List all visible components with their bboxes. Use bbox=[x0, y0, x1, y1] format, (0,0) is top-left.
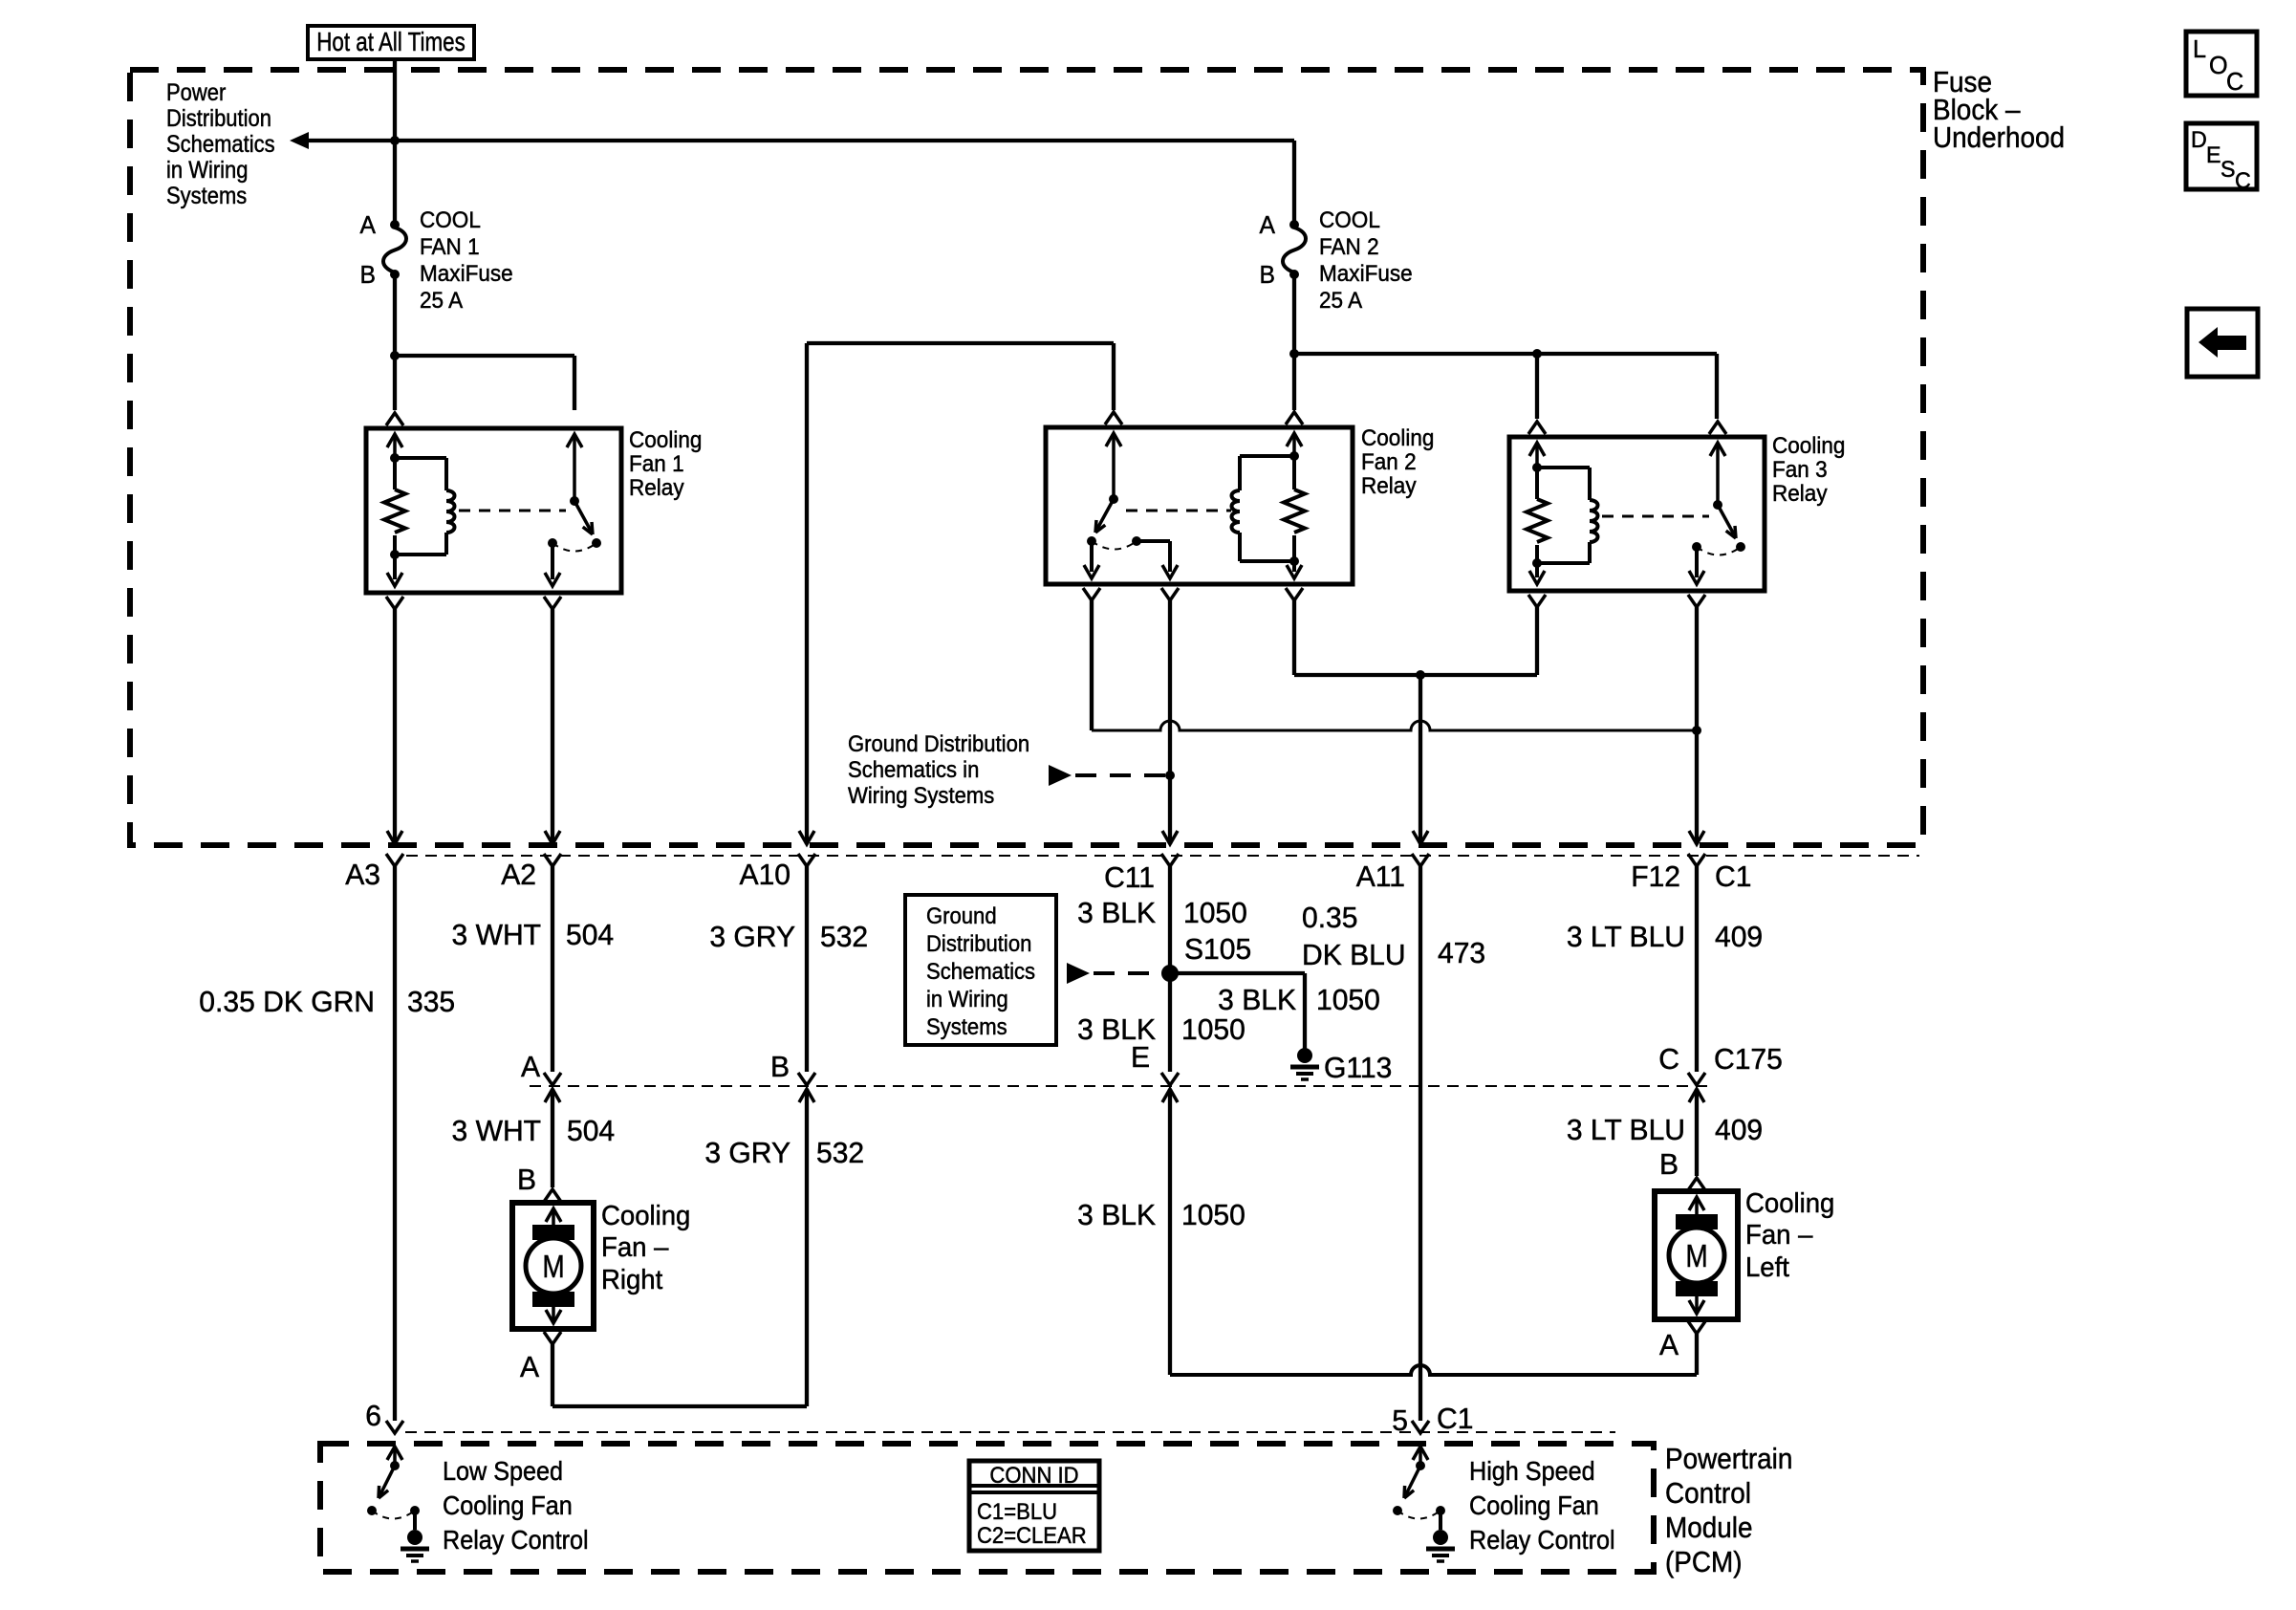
svg-text:FAN 1: FAN 1 bbox=[420, 233, 480, 259]
label: S105 bbox=[1184, 933, 1251, 967]
svg-text:C: C bbox=[1658, 1043, 1679, 1077]
svg-text:Fan 3: Fan 3 bbox=[1772, 456, 1828, 482]
svg-text:COOL: COOL bbox=[420, 207, 481, 232]
svg-text:Relay: Relay bbox=[1361, 472, 1417, 498]
motor enclosure bbox=[512, 1203, 594, 1329]
wire: fan left return bus to E riser (hop over A11) bbox=[1170, 1365, 1697, 1375]
svg-text:Powertrain: Powertrain bbox=[1665, 1443, 1792, 1476]
svg-text:C175: C175 bbox=[1714, 1043, 1783, 1077]
svg-text:G113: G113 bbox=[1324, 1052, 1392, 1085]
svg-text:0.35: 0.35 bbox=[1302, 902, 1357, 935]
svg-text:3 GRY: 3 GRY bbox=[709, 921, 795, 954]
label: fuse 2 terminal B bbox=[1260, 261, 1275, 289]
svg-text:Distribution: Distribution bbox=[926, 930, 1031, 956]
svg-text:3 WHT: 3 WHT bbox=[452, 1115, 541, 1148]
dashed actuation link relay 3 bbox=[1602, 515, 1709, 518]
svg-text:Schematics in: Schematics in bbox=[848, 756, 979, 782]
svg-text:(PCM): (PCM) bbox=[1665, 1546, 1743, 1579]
label: Cooling Fan 2 Relay bbox=[1361, 424, 1434, 450]
node: branch to relay 3 coil pin bbox=[1532, 349, 1542, 359]
node: relay 2 thrown contact bbox=[1132, 536, 1141, 546]
wire: branch down to relay 3 switch pin bbox=[1715, 354, 1719, 419]
DESC reference box bbox=[2186, 123, 2257, 189]
svg-text:Control: Control bbox=[1665, 1477, 1751, 1511]
svg-text:Cooling: Cooling bbox=[601, 1199, 690, 1230]
svg-text:Fan 2: Fan 2 bbox=[1361, 448, 1417, 474]
wire: A10 down to C175 pin B (3 GRY 532) bbox=[805, 866, 809, 1072]
pin label A2 bbox=[501, 859, 536, 892]
wire: C175 C down to cooling fan left pin B bbox=[1695, 1089, 1699, 1176]
svg-text:E: E bbox=[2206, 143, 2221, 168]
wire: hot feed down from Hot at All Times bbox=[393, 59, 397, 141]
svg-text:C11: C11 bbox=[1104, 861, 1155, 895]
label: Cooling Fan 1 Relay bbox=[629, 426, 702, 452]
node: dashed ground reference junction bbox=[1165, 771, 1175, 780]
wire: relay 3 coil output down bbox=[1535, 607, 1539, 675]
svg-text:Distribution: Distribution bbox=[166, 105, 271, 132]
ground G113 bbox=[1297, 1048, 1312, 1063]
motor feed arrow bbox=[546, 1208, 561, 1222]
svg-text:CONN ID: CONN ID bbox=[989, 1462, 1078, 1488]
pin label C11 bbox=[1104, 861, 1155, 895]
node: driver ground contact bbox=[410, 1506, 420, 1515]
label: pin A fan left bbox=[1659, 1329, 1679, 1362]
wire: relay 3 common output down bbox=[1695, 547, 1699, 577]
svg-text:C1=BLU: C1=BLU bbox=[977, 1498, 1057, 1524]
svg-text:5: 5 bbox=[1392, 1404, 1408, 1438]
svg-text:1050: 1050 bbox=[1183, 897, 1247, 930]
wire: contact to ground bbox=[1439, 1511, 1442, 1530]
driver switch arm bbox=[380, 1466, 395, 1494]
node: coil control junction to A11 bbox=[1416, 670, 1425, 680]
PCM dashed enclosure bbox=[320, 1444, 1654, 1572]
label: 3 LT BLU 409 lower bbox=[1567, 1114, 1685, 1147]
svg-text:Ground: Ground bbox=[926, 903, 997, 928]
motor feed arrow bbox=[1689, 1197, 1704, 1210]
svg-text:DK BLU: DK BLU bbox=[1302, 939, 1406, 972]
svg-text:409: 409 bbox=[1715, 1114, 1763, 1147]
wire: coil control bus relay2-relay3 bbox=[1294, 673, 1537, 677]
node: relay 1 resistor/coil bottom bbox=[390, 550, 400, 559]
wire: relay 2 coil output down bbox=[1292, 600, 1296, 675]
PCM terminal pin 5 chevron bbox=[1412, 1421, 1429, 1433]
svg-text:Left: Left bbox=[1745, 1251, 1789, 1282]
svg-text:C: C bbox=[2235, 169, 2251, 194]
svg-text:Underhood: Underhood bbox=[1933, 121, 2065, 155]
wire: relay 1 coil pin to connector A3 bbox=[393, 609, 397, 844]
connector terminal at x=1224 (arrow + chevron) bbox=[1162, 831, 1178, 844]
wire: C175 A down to cooling fan right pin B bbox=[551, 1089, 554, 1187]
CONN ID table bbox=[969, 1461, 1099, 1551]
relay 3 switch pin arrow into box bbox=[1710, 443, 1725, 456]
label: G113 bbox=[1324, 1052, 1392, 1085]
label: fuse 1 terminal A bbox=[360, 211, 377, 239]
wire: A3 to PCM pin 6 (0.35 DK GRN 335) bbox=[393, 866, 397, 1421]
relay 3 bottom terminal chevrons bbox=[1528, 595, 1546, 607]
svg-text:A11: A11 bbox=[1356, 860, 1405, 894]
node: hot feed junction bbox=[390, 136, 400, 145]
motor output arrow bbox=[1695, 1296, 1699, 1313]
svg-text:Fan –: Fan – bbox=[1745, 1218, 1813, 1250]
wire: relay 2 thrown output to connector C11 bbox=[1168, 600, 1172, 844]
label: 3 LT BLU 409 upper bbox=[1567, 921, 1685, 954]
relay 2 bottom terminal chevrons bbox=[1083, 588, 1100, 600]
dashed throw arc relay 1 bbox=[552, 543, 596, 552]
pin label A10 bbox=[740, 859, 791, 892]
label: COOL FAN 2 MaxiFuse 25 A bbox=[1319, 207, 1380, 232]
node: relay 1 common contact bbox=[548, 538, 557, 548]
coil L-k1 (relay 1 winding) bbox=[395, 456, 446, 460]
svg-text:L: L bbox=[2193, 36, 2206, 63]
svg-text:Wiring Systems: Wiring Systems bbox=[848, 782, 994, 808]
label: Fuse Block - Underhood bbox=[1933, 66, 1992, 99]
svg-text:COOL: COOL bbox=[1319, 207, 1380, 232]
label: fuse 1 terminal B bbox=[360, 261, 376, 289]
svg-text:O: O bbox=[2209, 53, 2228, 79]
svg-text:Cooling: Cooling bbox=[1745, 1186, 1834, 1218]
svg-text:B: B bbox=[770, 1051, 790, 1084]
motor brush top bbox=[1676, 1214, 1718, 1229]
connector terminal at x=1775 (arrow + chevron) bbox=[1689, 831, 1704, 844]
node: driver pivot bbox=[390, 1461, 400, 1470]
svg-text:B: B bbox=[360, 261, 376, 289]
pin label C at C175 bbox=[1658, 1043, 1679, 1077]
wire: S105 branch to G113 bbox=[1170, 971, 1305, 975]
node: tie line junction on F12 wire bbox=[1692, 726, 1701, 735]
svg-text:FAN 2: FAN 2 bbox=[1319, 233, 1379, 259]
svg-text:3 GRY: 3 GRY bbox=[704, 1137, 791, 1170]
svg-text:Relay: Relay bbox=[629, 474, 684, 500]
label: 3 BLK 1050 bottom bbox=[1077, 1199, 1156, 1232]
wire: A11 down to PCM pin 5 (0.35 DK BLU 473) bbox=[1419, 866, 1422, 1421]
connector terminal at x=844 (arrow + chevron) bbox=[799, 831, 814, 844]
wire: A11 riser down to connector bbox=[1419, 675, 1422, 844]
node: driver open contact bbox=[367, 1506, 377, 1515]
relay 1 coil-pin output arrow bbox=[393, 555, 397, 579]
fuse F1: COOL FAN 1 MaxiFuse 25 A bbox=[390, 220, 400, 229]
svg-text:504: 504 bbox=[566, 919, 614, 952]
svg-text:Schematics: Schematics bbox=[166, 131, 275, 158]
C175 terminal at x=1775 (chevron + arrow) bbox=[1688, 1073, 1705, 1085]
svg-text:B: B bbox=[517, 1164, 536, 1197]
node: driver pivot bbox=[1416, 1461, 1425, 1470]
label: pin B fan right bbox=[517, 1164, 536, 1197]
svg-text:B: B bbox=[1659, 1148, 1679, 1182]
svg-text:473: 473 bbox=[1438, 937, 1485, 970]
pin label A11 bbox=[1356, 860, 1405, 894]
svg-text:335: 335 bbox=[407, 986, 455, 1019]
svg-text:MaxiFuse: MaxiFuse bbox=[1319, 260, 1413, 286]
Hot at All Times box bbox=[308, 26, 474, 59]
svg-text:Low Speed: Low Speed bbox=[443, 1456, 563, 1487]
svg-text:3 BLK: 3 BLK bbox=[1077, 1199, 1156, 1232]
motor brush bottom bbox=[532, 1292, 574, 1307]
wire: F12 down to C175 pin C (3 LT BLU 409) bbox=[1695, 866, 1699, 1072]
relay 1 switch arm bbox=[574, 501, 591, 531]
svg-text:0.35 DK GRN: 0.35 DK GRN bbox=[199, 986, 375, 1019]
wire: relay 2 common contact output down bbox=[1090, 541, 1094, 572]
svg-text:25 A: 25 A bbox=[1319, 287, 1362, 313]
node: driver ground contact bbox=[1436, 1506, 1445, 1515]
svg-text:532: 532 bbox=[816, 1137, 864, 1170]
node: driver open contact bbox=[1393, 1506, 1402, 1515]
relay K3: Cooling Fan 3 Relay box bbox=[1509, 437, 1765, 591]
connector line: fuse block bottom (thin dashed) bbox=[406, 855, 1919, 857]
coil L-k2 (relay 2 winding) bbox=[1240, 454, 1294, 458]
wire: fan right pin A down bbox=[551, 1344, 554, 1406]
coil L-k3 (relay 3 winding) bbox=[1537, 466, 1590, 469]
node: relay 3 switch pivot bbox=[1713, 500, 1722, 510]
back-arrow box bbox=[2187, 309, 2258, 377]
svg-text:C2=CLEAR: C2=CLEAR bbox=[977, 1522, 1087, 1548]
svg-text:Hot at All Times: Hot at All Times bbox=[316, 28, 466, 57]
wire: relay 1 switch output to connector A2 bbox=[551, 609, 554, 844]
svg-text:Fan –: Fan – bbox=[601, 1230, 669, 1262]
svg-text:Right: Right bbox=[601, 1263, 662, 1295]
wire: fuse 1 output to relay 1 coil pin bbox=[393, 356, 397, 410]
connector terminal at x=1486 (arrow + chevron) bbox=[1413, 831, 1428, 844]
label: Power Distribution Schematics in Wiring Systems bbox=[166, 79, 226, 106]
node: relay 3 resistor/coil bottom bbox=[1532, 558, 1542, 568]
label: 3 BLK 1050 (G113 branch) bbox=[1218, 984, 1296, 1017]
wire: horizontal hot bus to power distribution arrow and fuse 2 bbox=[305, 139, 1294, 142]
svg-text:3 BLK: 3 BLK bbox=[1077, 897, 1156, 930]
pin label A3 bbox=[345, 859, 380, 892]
wire: C11 down to C175 pin E (3 BLK 1050) bbox=[1168, 866, 1172, 1072]
node: relay 3 resistor/coil top bbox=[1532, 463, 1542, 472]
svg-text:Cooling Fan: Cooling Fan bbox=[1469, 1490, 1599, 1521]
relay 1 coil-pin arrow into box bbox=[387, 434, 402, 447]
motor enclosure bbox=[1655, 1191, 1738, 1319]
PCM terminal pin 6 chevron bbox=[386, 1421, 403, 1433]
wire: fuse 1 output down bbox=[393, 274, 397, 356]
C175 terminal at x=578 (chevron + arrow) bbox=[544, 1073, 561, 1085]
connector line: PCM top (thin dashed) bbox=[405, 1431, 1615, 1433]
pin label C1 at PCM bbox=[1437, 1403, 1473, 1436]
motor M1: Cooling Fan - Right bbox=[544, 1189, 561, 1202]
svg-text:A10: A10 bbox=[740, 859, 791, 892]
label: Powertrain Control Module (PCM) bbox=[1665, 1443, 1792, 1476]
wire: relay 2 switch pin feed from A10 riser bbox=[807, 341, 1114, 345]
driver switch arm bbox=[1406, 1466, 1420, 1494]
ground symbol bbox=[1433, 1530, 1448, 1545]
wire: A2 down to C175 pin A (3 WHT 504) bbox=[551, 866, 554, 1072]
svg-text:Schematics: Schematics bbox=[926, 958, 1035, 984]
wire: fuse 2 output to relay 2 coil pin bbox=[1292, 354, 1296, 410]
wire: relay 3 common output to connector F12 bbox=[1695, 607, 1699, 844]
svg-text:C1: C1 bbox=[1715, 860, 1751, 894]
node: relay 2 common contact bbox=[1087, 536, 1096, 546]
motor brush top bbox=[532, 1225, 574, 1240]
wire: fan left pin A down bbox=[1695, 1334, 1699, 1375]
wire: tie line relay2 common to F12 wire (with hops) bbox=[1092, 721, 1697, 730]
node: fuse 2 output branch bbox=[1289, 349, 1299, 359]
relay 3 coil-pin arrow into box bbox=[1529, 443, 1545, 456]
svg-text:High Speed: High Speed bbox=[1469, 1456, 1595, 1487]
relay 2 coil-pin terminal chevron bbox=[1286, 412, 1303, 424]
pin label 6 bbox=[365, 1400, 381, 1433]
svg-text:M: M bbox=[542, 1250, 564, 1285]
dashed throw arc relay 3 bbox=[1697, 547, 1741, 555]
fuse block - underhood dashed enclosure bbox=[130, 70, 1923, 845]
svg-text:in Wiring: in Wiring bbox=[926, 986, 1008, 1012]
relay 2 switch pin chevron bbox=[1105, 412, 1122, 424]
wire: C175 E down to fan left return bus bbox=[1168, 1089, 1172, 1375]
wire: branch to relay 1 switch pin bbox=[395, 354, 574, 358]
label: Cooling Fan 3 Relay bbox=[1772, 432, 1845, 458]
node: relay 2 resistor/coil top bbox=[1289, 451, 1299, 461]
svg-text:3 BLK: 3 BLK bbox=[1218, 984, 1296, 1017]
svg-text:Fan 1: Fan 1 bbox=[629, 450, 684, 476]
C175 terminal at x=1224 (chevron + arrow) bbox=[1161, 1073, 1179, 1085]
wire: hot bus down to COOL FAN 2 MaxiFuse bbox=[1292, 141, 1296, 223]
arrow to Power Distribution Schematics bbox=[290, 132, 309, 149]
pin label F12 bbox=[1631, 860, 1680, 894]
PCM driver arrow from pin bbox=[387, 1447, 402, 1460]
svg-text:A: A bbox=[1659, 1329, 1679, 1362]
svg-text:A3: A3 bbox=[345, 859, 380, 892]
connector terminal at x=578 (arrow + chevron) bbox=[545, 831, 560, 844]
node: fuse 1 output branch bbox=[390, 351, 400, 360]
svg-text:S: S bbox=[2220, 158, 2236, 183]
relay 3 switch arm bbox=[1718, 505, 1734, 534]
PCM driver arrow from pin bbox=[1413, 1447, 1428, 1460]
motor brush bottom bbox=[1676, 1281, 1718, 1296]
svg-text:Power: Power bbox=[166, 79, 226, 106]
connector C175 dashed line bbox=[530, 1085, 1709, 1087]
node: relay 2 switch pivot bbox=[1109, 494, 1118, 504]
wire: contact to ground bbox=[413, 1511, 417, 1530]
wire: fan right return to 3 GRY riser bbox=[552, 1404, 807, 1408]
label: 3 WHT 504 lower bbox=[452, 1115, 541, 1148]
relay 1 switch pin arrow into box bbox=[567, 434, 582, 447]
wire: relay 2 thrown contact jog to second output bbox=[1137, 539, 1170, 543]
relay 3 coil output arrow bbox=[1535, 563, 1539, 577]
svg-text:C: C bbox=[2226, 69, 2243, 96]
relay 3 switch pin chevron bbox=[1709, 422, 1726, 434]
motor output arrow bbox=[552, 1307, 555, 1322]
svg-text:Module: Module bbox=[1665, 1512, 1752, 1545]
svg-text:1050: 1050 bbox=[1181, 1199, 1245, 1232]
svg-text:in Wiring: in Wiring bbox=[166, 157, 249, 184]
relay 2 switch arm bbox=[1097, 499, 1114, 529]
svg-text:A: A bbox=[520, 1351, 540, 1384]
label: 3 GRY 532 upper bbox=[709, 921, 795, 954]
svg-text:Ground Distribution: Ground Distribution bbox=[848, 730, 1029, 756]
wire: A10 riser down to connector bbox=[805, 343, 809, 844]
svg-text:A2: A2 bbox=[501, 859, 536, 892]
svg-text:A: A bbox=[1260, 211, 1276, 239]
svg-text:3 LT BLU: 3 LT BLU bbox=[1567, 921, 1685, 954]
svg-text:C1: C1 bbox=[1437, 1403, 1473, 1436]
wire: C175 B down to fan right return bbox=[805, 1089, 809, 1406]
ground distribution reference arrow (inside fuse block) bbox=[848, 730, 1029, 756]
relay 1 coil-pin terminal chevron bbox=[386, 413, 403, 425]
svg-text:F12: F12 bbox=[1631, 860, 1680, 894]
relay 2 coil-pin arrow into box bbox=[1287, 433, 1302, 446]
wire: fuse 2 output bus to relay 3 bbox=[1294, 352, 1717, 356]
relay K1: Cooling Fan 1 Relay box bbox=[366, 428, 621, 593]
pin label B at C175 bbox=[770, 1051, 790, 1084]
svg-text:504: 504 bbox=[567, 1115, 615, 1148]
svg-text:Cooling: Cooling bbox=[1361, 424, 1434, 450]
motor armature M bbox=[1669, 1228, 1724, 1283]
svg-text:6: 6 bbox=[365, 1400, 381, 1433]
svg-text:Systems: Systems bbox=[926, 1013, 1007, 1039]
dashed throw arc bbox=[372, 1511, 415, 1519]
resistor R-k3 (relay 3 internal) bbox=[1535, 468, 1539, 499]
label: 0.35 DK BLU 473 bbox=[1302, 902, 1357, 935]
label: pin A fan right bbox=[520, 1351, 540, 1384]
ground symbol bbox=[407, 1530, 422, 1545]
label: pin E bbox=[1131, 1041, 1150, 1075]
svg-text:A: A bbox=[521, 1051, 541, 1084]
label: fuse 2 terminal A bbox=[1260, 211, 1276, 239]
label: pin B fan left bbox=[1659, 1148, 1679, 1182]
LOC reference box bbox=[2186, 32, 2257, 96]
label: 3 WHT 504 upper bbox=[452, 919, 541, 952]
motor armature M bbox=[526, 1238, 581, 1294]
C175 terminal at x=844 (chevron + arrow) bbox=[798, 1073, 815, 1085]
wire: relay 1 switch output down bbox=[551, 543, 554, 579]
resistor R-k1 (relay 1 internal) bbox=[393, 458, 397, 490]
wire: relay 2 common output to tie line bbox=[1090, 600, 1094, 730]
label: COOL FAN 1 MaxiFuse 25 A bbox=[420, 207, 481, 232]
svg-text:B: B bbox=[1260, 261, 1275, 289]
svg-text:A: A bbox=[360, 211, 377, 239]
svg-text:Systems: Systems bbox=[166, 183, 247, 209]
node: relay 1 thrown contact bbox=[592, 538, 601, 548]
ground distribution reference box bbox=[905, 895, 1056, 1045]
svg-text:Cooling Fan: Cooling Fan bbox=[443, 1490, 573, 1521]
svg-text:M: M bbox=[1685, 1239, 1707, 1274]
svg-text:S105: S105 bbox=[1184, 933, 1251, 967]
node: relay 1 resistor/coil top bbox=[390, 453, 400, 463]
wire: fuse 2 output down bbox=[1292, 274, 1296, 354]
node: relay 1 switch pivot bbox=[570, 496, 579, 506]
svg-text:Cooling: Cooling bbox=[629, 426, 702, 452]
resistor R-k2 (relay 2 internal) bbox=[1292, 456, 1296, 490]
dashed actuation link relay 1 bbox=[459, 510, 566, 512]
relay 1 bottom terminal chevrons bbox=[386, 597, 403, 609]
svg-text:25 A: 25 A bbox=[420, 287, 463, 313]
node: relay 3 common contact bbox=[1692, 542, 1701, 552]
svg-text:1050: 1050 bbox=[1181, 1013, 1245, 1047]
pin label A at C175 bbox=[521, 1051, 541, 1084]
svg-text:E: E bbox=[1131, 1041, 1150, 1075]
node: splice S105 bbox=[1161, 965, 1179, 982]
wire: hot bus down to COOL FAN 1 MaxiFuse bbox=[393, 141, 397, 223]
svg-text:MaxiFuse: MaxiFuse bbox=[420, 260, 513, 286]
relay 2 switch pin arrow into box bbox=[1106, 433, 1121, 446]
pin label 5 bbox=[1392, 1404, 1408, 1438]
motor M2: Cooling Fan - Left bbox=[1688, 1178, 1705, 1190]
svg-text:532: 532 bbox=[820, 921, 868, 954]
label: 3 BLK 1050 lower-left bbox=[1077, 1013, 1156, 1047]
pin label C1 bbox=[1715, 860, 1751, 894]
node: relay 2 resistor/coil bottom bbox=[1289, 556, 1299, 566]
svg-text:Relay Control: Relay Control bbox=[443, 1525, 589, 1556]
connector terminal at x=413 (arrow + chevron) bbox=[387, 831, 402, 844]
svg-text:Relay: Relay bbox=[1772, 480, 1828, 506]
node: relay 3 thrown contact bbox=[1736, 542, 1745, 552]
svg-text:1050: 1050 bbox=[1316, 984, 1380, 1017]
label: 0.35 DK GRN 335 bbox=[199, 986, 375, 1019]
svg-text:D: D bbox=[2191, 128, 2207, 153]
svg-text:Cooling: Cooling bbox=[1772, 432, 1845, 458]
svg-text:409: 409 bbox=[1715, 921, 1763, 954]
relay K2: Cooling Fan 2 Relay box bbox=[1046, 427, 1353, 584]
